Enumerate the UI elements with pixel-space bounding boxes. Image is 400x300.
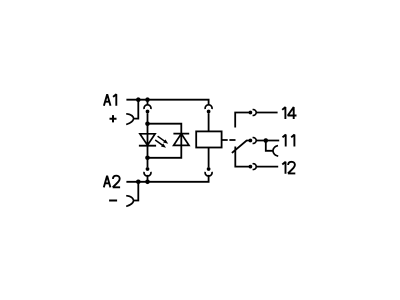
contact 12 line with NC post [235, 147, 249, 167]
terminal label 12 [282, 162, 295, 174]
contact armature (moving contact) [232, 141, 249, 153]
LED D1 triangle [140, 134, 155, 145]
LED emission arrow 1 [158, 136, 169, 144]
wire from A2 clamp up to A2 wire [134, 182, 139, 201]
node B (bottom of LED / diode loop) [145, 156, 150, 161]
contact 14 line with NO post [235, 113, 249, 128]
plug-socket on 11 line (pin) [249, 139, 253, 143]
wire A1 top horizontal with corner down to coil branch [126, 100, 208, 105]
wire coil branch vertical to coil [208, 113, 210, 131]
plug-socket on 12 line (pin) [249, 165, 253, 169]
wire 11 to label [257, 140, 280, 142]
diode D2 triangle [174, 134, 189, 146]
LED D1 cathode bar [139, 145, 156, 147]
terminal label A2 [104, 176, 120, 188]
plug-socket on 14 line (socket) [253, 110, 257, 116]
diode D2 cathode bar [173, 133, 189, 135]
LED emission arrow 2 [155, 140, 166, 148]
terminal label 14 [282, 107, 296, 119]
wire LED branch vertical lower [147, 146, 149, 168]
node dot on A1 wire (LED branch) [145, 97, 150, 102]
plug-socket connector on coil branch top (pin) [207, 110, 211, 114]
wire loop to freewheel diode branch [148, 124, 182, 158]
wire from A1 clamp up to A1 wire [134, 100, 139, 119]
plug-socket connector lower LED branch (pin) [146, 167, 150, 171]
wire LED branch vertical upper [147, 100, 149, 105]
terminal label A1 [104, 94, 116, 106]
wire from 11 node down to clamp [266, 141, 273, 151]
plug-socket on 14 line (pin) [249, 111, 253, 115]
node dot on A1 wire (clamp branch) [136, 97, 141, 102]
plug-socket connector coil branch bottom (pin) [207, 167, 211, 171]
plug-socket connector coil branch bottom (socket) [205, 172, 212, 176]
plug-socket connector on coil branch top (socket) [205, 105, 212, 109]
wire 12 to label [257, 166, 279, 168]
minus polarity mark [109, 200, 117, 202]
plug-socket connector on LED branch (socket) [144, 105, 151, 109]
terminal label 11 [283, 135, 295, 147]
plug-socket connector lower LED branch (socket) [144, 172, 151, 176]
wire 14 to label [257, 112, 278, 114]
node A (top of LED / diode loop) [145, 121, 150, 126]
node dot on 11 wire [264, 138, 269, 143]
plus polarity mark [110, 115, 117, 122]
plug-socket connector on LED branch (pin) [146, 110, 150, 114]
wire to A2 line [147, 175, 149, 182]
cage clamp terminal 11 [273, 146, 278, 157]
mechanical link (dashed) from coil to contact [223, 139, 236, 141]
cage clamp terminal A1 [126, 114, 134, 125]
cage clamp terminal A2 [126, 196, 134, 207]
plug-socket on 12 line (socket) [253, 164, 257, 170]
node dot on A2 wire (clamp branch) [136, 180, 141, 185]
wire LED branch vertical through LED [147, 113, 149, 145]
relay coil K1 [196, 131, 221, 147]
wire below coil [208, 148, 210, 168]
plug-socket on 11 line (socket) [253, 138, 257, 144]
node dot on A2 wire (LED branch) [145, 180, 150, 185]
wire A2 bottom horizontal with corner up to coil branch [126, 175, 208, 182]
